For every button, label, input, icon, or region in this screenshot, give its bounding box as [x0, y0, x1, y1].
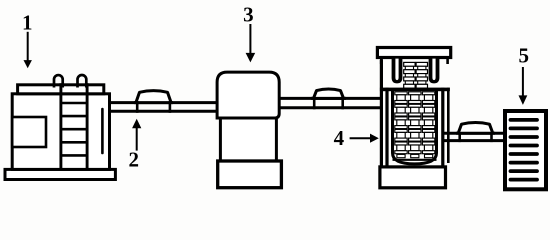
fitting D1 flange seams [137, 101, 170, 113]
label 1 arrow [24, 32, 32, 69]
pipe P2 line through fitting D2 [311, 97, 346, 100]
packing column 1 [395, 92, 407, 158]
filter housing [505, 111, 546, 189]
fitting D3 flange seams [460, 132, 492, 142]
column plate stub right [446, 58, 449, 65]
column top plate [377, 48, 450, 58]
fitting D2 flange seams [314, 97, 343, 109]
ladder rungs [61, 103, 87, 155]
pipe P1 line through fitting D1 [134, 101, 173, 104]
svg-text:5: 5 [519, 44, 530, 68]
svg-text:1: 1 [22, 11, 33, 35]
svg-text:4: 4 [334, 126, 345, 150]
column shell top band [380, 88, 450, 92]
column hanger channel left [392, 59, 403, 84]
pipe P3 line through fitting D3 [456, 132, 495, 135]
tank middle shell [220, 118, 276, 161]
pipe P2 tank to column [278, 98, 383, 107]
engine internal dip line [101, 109, 104, 153]
packing basket walls and bottom [393, 91, 437, 164]
pipe P3 column to filter [442, 133, 506, 140]
column inner wall left [385, 88, 388, 167]
ladder right rail [86, 83, 89, 169]
basket bottom chord [393, 159, 437, 161]
column hanger channel right [429, 59, 440, 84]
svg-text:2: 2 [128, 147, 139, 171]
column plate stub left [380, 58, 383, 65]
label 4 arrow [350, 134, 379, 143]
label 5 arrow [519, 67, 528, 105]
ladder left rail [59, 83, 62, 169]
fitting D2 dome [313, 89, 343, 99]
packing column 2 [409, 92, 421, 158]
fitting D3 dome [458, 123, 493, 134]
packing column 3 [422, 92, 434, 158]
column outer wall right [447, 88, 450, 163]
engine pipe stub U1 [54, 75, 63, 87]
engine base plate [5, 169, 115, 179]
engine pipe stub U2 [78, 75, 87, 88]
upper packing column 1 [404, 62, 415, 88]
tank upper shell [217, 72, 279, 118]
tank base [218, 161, 282, 188]
column inner wall right [441, 88, 444, 167]
fitting D1 dome [136, 91, 171, 103]
svg-text:3: 3 [243, 3, 254, 27]
label 2 arrow [132, 119, 141, 151]
engine window [12, 117, 46, 147]
engine body [12, 94, 109, 170]
filter louvers [511, 120, 538, 180]
upper packing column 2 [416, 62, 427, 88]
engine lid [18, 85, 104, 94]
label 3 arrow [246, 24, 256, 62]
column outer wall left [380, 60, 383, 167]
column base [380, 167, 446, 188]
pipe P1 engine to tank [108, 103, 219, 112]
